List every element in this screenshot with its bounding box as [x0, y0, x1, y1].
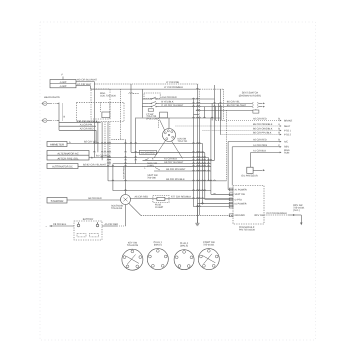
- oil pressure switch: [241, 152, 265, 177]
- connector view 4 (START SW): [198, 241, 219, 270]
- mag coil dashed box: [91, 89, 110, 119]
- svg-text:MAG: MAG: [284, 149, 290, 152]
- battery: [74, 218, 102, 240]
- wire light switch feed: [143, 89, 149, 107]
- svg-text:(SHOWN W RIDER): (SHOWN W RIDER): [239, 94, 261, 97]
- svg-text:C8 CIR BLK: C8 CIR BLK: [53, 223, 67, 226]
- svg-text:A1 CIR ORG: A1 CIR ORG: [253, 144, 267, 147]
- wire dashed row 139.3: [111, 138, 124, 140]
- svg-text:700-280: 700-280: [147, 177, 156, 180]
- wire fuse to mag coil: [91, 82, 121, 158]
- svg-text:BRAKE: BRAKE: [284, 119, 293, 122]
- svg-text:A3 CIR YEL/WHT: A3 CIR YEL/WHT: [164, 161, 184, 164]
- fuse F1: [50, 74, 76, 89]
- seat relay label: [147, 174, 158, 180]
- reverse switch label: [293, 204, 305, 212]
- svg-text:A HI CIR RED: A HI CIR RED: [161, 96, 177, 99]
- wire ignition diagonal upper-left: [160, 120, 165, 131]
- svg-text:IG POWER: IG POWER: [235, 203, 247, 206]
- alternator box: [47, 151, 89, 161]
- svg-text:P/N 725-04228: P/N 725-04228: [239, 229, 255, 232]
- wire module pin 3 feed: [205, 198, 233, 200]
- svg-text:C10 CIR RED/BLK: C10 CIR RED/BLK: [266, 212, 287, 215]
- wire solenoid to fuse F27: [131, 196, 153, 199]
- wire seat harness drops: [194, 103, 222, 120]
- wire A1 CIR RED boxed label: [93, 150, 205, 154]
- svg-text:725-04439: 725-04439: [111, 207, 123, 210]
- wire LT CIR PNK: [94, 81, 198, 84]
- vertical wire 220.5: [220, 89, 222, 134]
- ignition switch: [163, 129, 189, 144]
- svg-text:A2 CIR RED: A2 CIR RED: [80, 127, 94, 130]
- svg-text:(N.O.): (N.O.): [293, 209, 300, 212]
- svg-text:PTO 1: PTO 1: [284, 129, 292, 132]
- seat harness dashed edge: [198, 89, 200, 118]
- svg-text:725-04101: 725-04101: [203, 244, 215, 247]
- svg-text:B5 CIR PPL/WHT: B5 CIR PPL/WHT: [166, 168, 186, 171]
- wire C10 CIR RED/BLK from module: [264, 212, 295, 216]
- svg-text:F27 CIR RED/BLK: F27 CIR RED/BLK: [171, 196, 192, 199]
- wire left vertical 102.1: [101, 122, 103, 161]
- wire A6 CIR RED starter to solenoid: [67, 197, 121, 200]
- svg-text:F: F: [62, 74, 64, 77]
- wire A3 CIR YEL/WHT: [107, 157, 215, 160]
- svg-text:A4 CIR RED: A4 CIR RED: [122, 166, 125, 179]
- wire B2 CIR YEL from ammeter: [67, 141, 203, 144]
- svg-text:COIL 725-1426: COIL 725-1426: [100, 95, 117, 98]
- vertical wire dashed 223.4: [222, 89, 224, 120]
- wire F27 CIR RED/BLK: [169, 196, 233, 199]
- wire A2 CIR RED: [59, 127, 96, 143]
- svg-text:SEAT SW: SEAT SW: [235, 193, 246, 196]
- wire C30 CIR WHT/BLK: [59, 120, 101, 123]
- starter box: [47, 198, 67, 204]
- fuse F27: [153, 196, 169, 209]
- svg-text:B5 CIR PPL/BLK: B5 CIR PPL/BLK: [253, 132, 272, 135]
- svg-text:AMMETER: AMMETER: [50, 143, 64, 147]
- svg-text:B5 CIR YEL/WHT: B5 CIR YEL/WHT: [227, 104, 247, 107]
- svg-text:AL POWER: AL POWER: [235, 188, 248, 191]
- seat switch: [160, 92, 265, 114]
- svg-text:B: B: [64, 116, 66, 119]
- svg-text:B: B: [152, 157, 154, 160]
- wire A1 CIR PPL: [59, 123, 96, 126]
- wire ignition diagonal right: [172, 141, 183, 159]
- ground symbol: [195, 205, 199, 226]
- svg-text:→: →: [45, 225, 48, 228]
- wire LO CIR WHT from fuse F1: [76, 83, 92, 86]
- svg-text:20 AMP: 20 AMP: [155, 206, 164, 209]
- ignition harness boxlet: [158, 112, 167, 128]
- svg-text:L: L: [145, 167, 147, 170]
- light switch label: [146, 113, 158, 121]
- svg-text:AFTER FIRE SOL: AFTER FIRE SOL: [57, 157, 79, 160]
- alternator DC box: [47, 164, 78, 169]
- light switch: [144, 93, 160, 111]
- svg-text:A5 CIR RED: A5 CIR RED: [253, 139, 267, 142]
- svg-text:B2 B2 CIR YEL/WHT: B2 B2 CIR YEL/WHT: [83, 163, 106, 166]
- wire light switch row B: [161, 101, 174, 104]
- svg-text:4 AMP: 4 AMP: [60, 81, 67, 84]
- wire ground bus: [141, 214, 233, 216]
- wire to reverse switch arrow: [295, 215, 302, 225]
- svg-text:B5 CIR ORG/BLK: B5 CIR ORG/BLK: [253, 123, 273, 126]
- wire corner module top: [231, 147, 233, 186]
- svg-text:OIL PRESSUR: OIL PRESSUR: [241, 175, 258, 178]
- svg-text:A1 CIR BLK: A1 CIR BLK: [253, 150, 267, 153]
- connector view 1 (KEY SW): [122, 242, 143, 271]
- wire row 190.6: [113, 190, 211, 191]
- svg-text:HD CIR BLU/WHT: HD CIR BLU/WHT: [77, 79, 98, 82]
- wire solenoid diagonal to ground bus: [129, 203, 141, 215]
- vertical wire dashed 226.5: [226, 110, 228, 181]
- svg-text:LO CIR WHT: LO CIR WHT: [77, 83, 92, 86]
- endpoint label MAG: [284, 149, 290, 152]
- solenoid: [111, 195, 131, 211]
- svg-text:725-04228: 725-04228: [127, 244, 139, 247]
- svg-text:A1 CIR RED: A1 CIR RED: [141, 152, 155, 155]
- svg-text:G-PTO: G-PTO: [235, 198, 243, 201]
- wire module pin 2 feed: [211, 193, 233, 194]
- wire C8 CIR BLK battery negative: [45, 223, 74, 228]
- PCB module: [229, 186, 264, 232]
- wire HI CIR RED: [160, 96, 215, 99]
- wire B2 CIR YEL/WHT from alternator DC: [78, 163, 211, 166]
- ammeter box: [47, 141, 71, 147]
- svg-text:A6 CIR RED: A6 CIR RED: [135, 196, 149, 199]
- wire ignition drop: [168, 118, 170, 129]
- headlight bus wire: [57, 103, 66, 131]
- svg-text:B2 CIR YEL: B2 CIR YEL: [84, 141, 98, 144]
- wire vertical feed to solenoid: [122, 139, 125, 194]
- svg-text:LT CIR ORG/BLK: LT CIR ORG/BLK: [164, 86, 183, 89]
- wire ignition diagonal left: [154, 141, 166, 159]
- harness box (mag area): [77, 102, 124, 121]
- headlight lamps: [42, 96, 60, 123]
- seat box feed wire: [196, 110, 253, 111]
- svg-text:A5 CIR RED: A5 CIR RED: [105, 223, 119, 226]
- wire LO CIR YEL/WHT: [161, 104, 184, 107]
- wire LT CIR ORG/BLK: [121, 86, 224, 89]
- wire vertical x108: [107, 122, 109, 181]
- svg-text:BATTERY: BATTERY: [83, 218, 94, 221]
- connector view 2 (PLUG 1): [147, 241, 168, 270]
- svg-text:(MALE): (MALE): [154, 244, 162, 247]
- wire A5 CIR RED battery positive: [102, 205, 126, 227]
- svg-text:REV SW: REV SW: [255, 214, 265, 217]
- svg-text:(OFF): (OFF): [147, 165, 153, 168]
- svg-text:B: B: [91, 156, 93, 159]
- magneto coil: [100, 89, 139, 139]
- wire B5 CIR PPL/WHT: [154, 168, 211, 171]
- svg-text:4 AMP: 4 AMP: [60, 85, 67, 88]
- connector view 3 (PLUG 2): [174, 242, 194, 270]
- svg-text:B5 CIR ORG/BLK: B5 CIR ORG/BLK: [253, 128, 273, 131]
- svg-text:PTO 2: PTO 2: [284, 133, 292, 136]
- wire left vertical dashed 105: [104, 122, 106, 158]
- wire left vertical dashed 109.9: [109, 122, 111, 167]
- wire left feed vertical: [131, 84, 143, 152]
- wire corner to module pin 1: [228, 142, 233, 190]
- svg-text:A6 CIR RED: A6 CIR RED: [88, 197, 102, 200]
- svg-text:SEAT: SEAT: [284, 125, 291, 128]
- svg-text:ALTERNATOR DC: ALTERNATOR DC: [52, 166, 73, 169]
- svg-text:B5 CIR PPL/BLK: B5 CIR PPL/BLK: [166, 178, 185, 181]
- svg-text:725-1741: 725-1741: [178, 140, 189, 143]
- wire A3 CIR YEL/WHT lower: [107, 161, 211, 164]
- wire module pin 4 feed: [197, 203, 233, 204]
- mag switch label: [145, 162, 161, 170]
- svg-text:GROUND: GROUND: [235, 214, 246, 217]
- wire B5 CIR PPL/BLK: [108, 178, 227, 181]
- wire module pin 5 feed: [194, 206, 233, 207]
- svg-text:A1 CIR PPL: A1 CIR PPL: [80, 123, 94, 126]
- svg-text:LT CIR PNK: LT CIR PNK: [166, 81, 180, 84]
- svg-text:(MALE): (MALE): [180, 245, 188, 248]
- vertical wire bundle: [194, 84, 215, 223]
- svg-text:ALTERNATOR AC: ALTERNATOR AC: [57, 153, 78, 156]
- wire mid feed: [136, 117, 221, 118]
- svg-text:HEADLIGHTS: HEADLIGHTS: [44, 96, 60, 99]
- svg-text:A5 CIR RED: A5 CIR RED: [253, 118, 267, 121]
- right side harness rows: [176, 118, 293, 155]
- wire left vertical 97.9: [97, 122, 99, 153]
- svg-text:A/C: A/C: [284, 141, 288, 144]
- wire HD CIR BLU/WHT from fuse F1: [76, 79, 98, 82]
- wire vertical x112.9: [112, 164, 114, 191]
- svg-text:STARTER: STARTER: [51, 199, 64, 203]
- wire B1 CIR RED from alternator: [89, 155, 209, 160]
- wire left vertical 135.7: [135, 118, 137, 164]
